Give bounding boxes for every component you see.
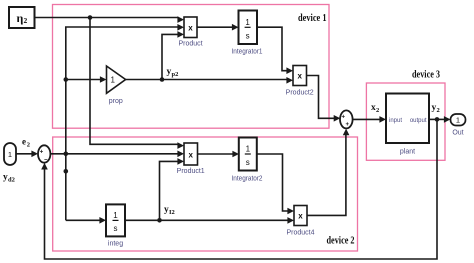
wire Product4 to sum1 bottom [307, 129, 349, 216]
gain prop [107, 66, 126, 105]
device 1 box [53, 5, 330, 129]
node junction feedback [435, 117, 440, 122]
node junction yp2 [160, 77, 165, 82]
node label yp2 [167, 67, 179, 78]
svg-text:−: − [44, 157, 48, 163]
svg-text:device 1: device 1 [298, 13, 327, 24]
wire feedback loop [41, 119, 437, 259]
sum2 [38, 145, 50, 163]
wire sum1 to plant [353, 116, 386, 123]
svg-text:prop: prop [109, 98, 123, 105]
svg-text:η: η [17, 11, 24, 25]
wire eta2 branch down to Product1 input1 [90, 18, 184, 149]
wire Product2 to sum1 [307, 76, 341, 122]
wire Product1 to Integrator2 [198, 151, 240, 158]
svg-text:device 2: device 2 [327, 236, 355, 247]
svg-text:Integrator1: Integrator1 [232, 49, 263, 56]
svg-text:2: 2 [437, 107, 440, 114]
node label x2 [371, 103, 379, 114]
wire In to sum2 [16, 151, 38, 158]
svg-text:2: 2 [376, 107, 379, 114]
wire Integrator1 to Product2 input1 [257, 27, 293, 74]
wire Integrator2 to Product4 input1 [257, 154, 294, 214]
svg-text:Product1: Product1 [177, 168, 205, 175]
block Product4 [286, 206, 314, 237]
svg-text:x: x [188, 24, 193, 33]
svg-text:1: 1 [246, 145, 251, 154]
node label yI2 [164, 205, 175, 216]
svg-text:1: 1 [8, 150, 12, 159]
node junction eta2 branch [88, 15, 93, 20]
svg-text:+: + [346, 122, 350, 128]
block eta2 [9, 7, 35, 28]
wire Product to Integrator1 [197, 24, 239, 31]
svg-text:+: + [342, 114, 346, 120]
node label yd2 [3, 173, 15, 184]
svg-text:Product2: Product2 [286, 90, 314, 97]
block plant [386, 94, 429, 156]
wire main vertical bus x=65.8 (sum2 output up to Product input2) [66, 24, 184, 220]
wire eta2 to Product input1 [35, 16, 185, 23]
block Product2 [286, 66, 314, 97]
svg-text:s: s [114, 224, 118, 233]
svg-text:1: 1 [113, 211, 118, 220]
svg-text:x: x [188, 150, 193, 159]
wire yI2 up to Product1 input3 [160, 158, 185, 220]
wire plant to Out [429, 116, 451, 123]
block Integrator1 [232, 11, 263, 56]
node label e2 [22, 137, 30, 149]
svg-text:x: x [297, 72, 302, 81]
svg-text:1: 1 [111, 76, 116, 85]
node junction yI2 [157, 218, 162, 223]
svg-text:x: x [298, 212, 303, 221]
wire prop output to Product2 input2 [126, 77, 293, 84]
svg-text:plant: plant [400, 149, 415, 156]
svg-text:integ: integ [108, 241, 123, 248]
svg-text:2: 2 [27, 142, 30, 149]
wire integ output to Product4 input2 [125, 217, 294, 224]
block In port [4, 143, 16, 165]
node junction bus/sum2 output [64, 152, 69, 157]
block Product1 [177, 143, 205, 175]
device 2 box [53, 137, 358, 251]
svg-text:s: s [246, 158, 250, 167]
svg-text:e: e [22, 137, 26, 147]
node junction bus/prop [64, 77, 69, 82]
svg-text:Out: Out [452, 130, 463, 137]
svg-text:I2: I2 [169, 209, 175, 216]
svg-text:2: 2 [24, 16, 28, 25]
svg-text:Product4: Product4 [286, 230, 314, 237]
wire yp2 up to Product input3 [162, 31, 184, 79]
block Integrator2 [232, 138, 263, 183]
svg-text:+: + [40, 150, 44, 156]
svg-text:d2: d2 [8, 177, 15, 184]
sum1 [340, 110, 353, 128]
svg-text:1: 1 [245, 18, 250, 27]
wire bus to integ input [66, 217, 106, 224]
svg-text:input: input [389, 118, 402, 124]
node label y2 [432, 103, 440, 114]
svg-text:s: s [246, 32, 250, 41]
block integ [106, 204, 125, 247]
svg-text:1: 1 [456, 115, 460, 124]
block Out port [451, 114, 466, 137]
svg-text:p2: p2 [172, 71, 179, 78]
node junction bus lower dot [64, 169, 69, 174]
wire sum2 output to Product1 input2 [50, 151, 184, 158]
svg-text:Product: Product [178, 41, 202, 48]
device 3 box [366, 83, 445, 160]
wire bus to prop input [66, 76, 107, 83]
svg-text:output: output [410, 118, 427, 124]
block Product [178, 17, 202, 48]
svg-text:device 3: device 3 [412, 70, 440, 81]
svg-text:Integrator2: Integrator2 [232, 176, 263, 183]
